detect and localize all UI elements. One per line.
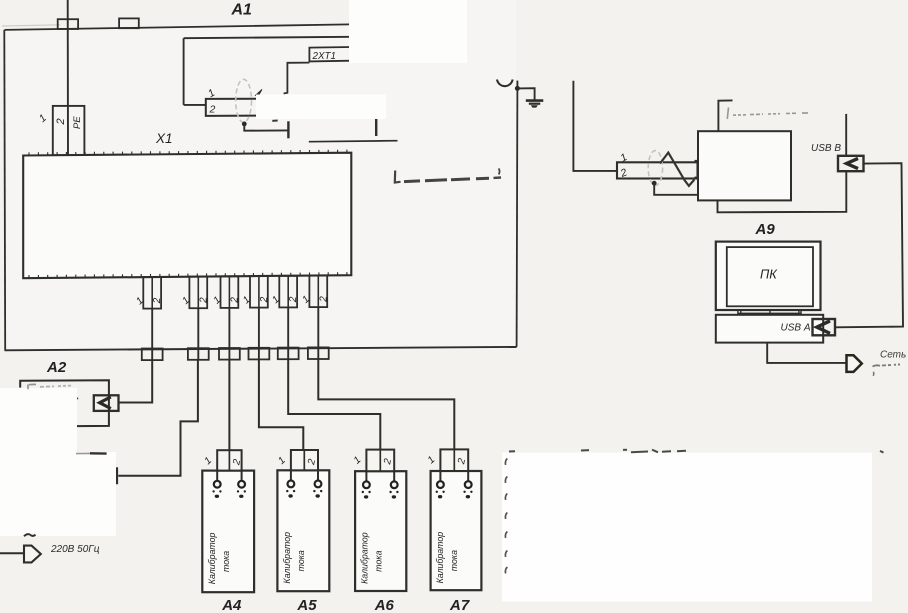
- erased remnant dash above wire: [272, 120, 277, 122]
- cable gland tab on A1 top edge (left): [58, 19, 78, 29]
- svg-text:А6: А6: [374, 597, 395, 613]
- connector USB A symbol: [813, 319, 836, 335]
- A1 interior lighter paper: [5, 0, 516, 350]
- twist wave line (right pair): [660, 153, 694, 186]
- label Калибратор тока inside А5: [282, 532, 306, 584]
- connector box 2XT1: [309, 47, 352, 61]
- erased A3 block edge remnant: [76, 452, 107, 455]
- erased label under Сеть remnants: [873, 364, 902, 375]
- erased label Генератор remnants: [28, 384, 73, 389]
- bulkhead feedthrough tab no.6 on A1 bottom edge: [308, 347, 329, 359]
- svg-text:Калибратор: Калибратор: [282, 532, 292, 584]
- svg-text:тока: тока: [296, 550, 306, 571]
- banana jack of А5 at x=318.0: [315, 481, 322, 488]
- label Калибратор тока inside А6: [360, 532, 384, 584]
- connector 1/2 on calibrator А7: [440, 449, 468, 471]
- bulkhead feedthrough tab no.5 on A1 bottom edge: [278, 348, 299, 360]
- svg-text:А9: А9: [755, 221, 776, 238]
- pin tick marks along X1 bottom edge: [29, 272, 347, 277]
- banana jack of А7 at x=468.2: [465, 481, 472, 488]
- wire from ground node to earth symbol: [517, 88, 534, 100]
- wire stub to jack at x=394.2 of А6: [393, 471, 395, 481]
- banana jack of А4 at x=217.2: [214, 481, 221, 488]
- block A1 enclosure bottom edge: [5, 347, 517, 350]
- wire from under-X1 connector no.5 down to bulkhead tab: [287, 307, 289, 348]
- current calibrator А4 box: [202, 471, 254, 593]
- svg-text:тока: тока: [221, 551, 231, 572]
- wire stub up from ground node: [516, 81, 518, 89]
- block A1 enclosure top edge: [5, 24, 350, 30]
- white-out patch top: [349, 0, 467, 63]
- svg-text:РЕ: РЕ: [72, 116, 83, 129]
- polarity dots of А7 at x=440.4: [436, 491, 445, 499]
- wire stub to jack at x=468.2 of А7: [467, 471, 469, 481]
- clamp circle at A1 corner: [497, 80, 513, 87]
- wire through bulkhead tab no.6: [317, 348, 319, 359]
- junction dot (right pair): [652, 181, 657, 186]
- white-out patch below A2: [0, 452, 116, 536]
- svg-text:А7: А7: [449, 597, 470, 613]
- inner wire loop top edge inside A1: [184, 37, 352, 38]
- connector 1/2 on calibrator А4: [217, 450, 241, 470]
- current calibrator А7 box: [431, 471, 482, 590]
- wire from image left edge to mains arrow: [0, 552, 24, 554]
- svg-text:тока: тока: [374, 550, 384, 571]
- wire USB B to right then down to USB A: [835, 163, 903, 327]
- label Калибратор тока inside А4: [207, 533, 231, 585]
- erased text mark r: [75, 398, 78, 402]
- wire from right pair junction dot to converter: [654, 183, 698, 195]
- white-out patch over legend: [502, 453, 872, 602]
- connector row 2 box (left twisted pair): [206, 99, 288, 116]
- svg-text:А5: А5: [296, 597, 317, 613]
- polarity dots of А5 at x=290.9: [286, 490, 295, 498]
- wire no.4 tab to calibrator A5: [259, 360, 303, 451]
- svg-text:А2: А2: [46, 359, 67, 376]
- svg-text:2: 2: [288, 296, 299, 303]
- terminal bar at erased A3 block: [116, 467, 118, 484]
- erased converter label text remnants: [727, 108, 808, 119]
- block A1 enclosure right edge: [516, 88, 519, 347]
- inner wire loop left edge: [183, 38, 185, 105]
- svg-text:Калибратор: Калибратор: [360, 532, 370, 584]
- erased legend line-start marks: [505, 459, 507, 574]
- svg-text:ПК: ПК: [760, 267, 778, 282]
- terminal block X1 outline: [23, 153, 351, 279]
- mains plug arrow (right): [847, 355, 862, 372]
- svg-text:2: 2: [198, 297, 209, 304]
- polarity dots of А7 at x=468.2: [463, 491, 472, 499]
- wire PC base to mains arrow: [767, 343, 845, 363]
- AC tilde mark: [24, 534, 36, 536]
- wire stub to jack at x=440.4 of А7: [439, 471, 441, 481]
- connector 1/2 pair no.6 under X1: [309, 276, 327, 308]
- svg-text:220В 50Гц: 220В 50Гц: [50, 544, 100, 555]
- wire stub to jack at x=241.6 of А4: [241, 471, 243, 481]
- polarity dots of А4 at x=241.6: [237, 490, 246, 498]
- connector 1/2 pair no.3 under X1: [221, 276, 239, 308]
- erased converter label box bracket: [718, 100, 732, 131]
- wire from junction dot to terminal bar: [244, 124, 287, 131]
- PC monitor inner box: [727, 247, 813, 306]
- junction dot at ground node: [515, 86, 520, 91]
- PC monitor stand shelf: [738, 310, 801, 313]
- svg-text:Сеть: Сеть: [880, 350, 906, 361]
- PC monitor outer box: [716, 242, 821, 310]
- twist arrowhead (left pair): [256, 89, 262, 95]
- wire no.1 tab to A2 plug: [119, 360, 153, 402]
- junction dot (left pair): [242, 122, 247, 127]
- svg-text:тока: тока: [449, 550, 459, 571]
- wire no.6 tab to calibrator A7: [318, 359, 454, 449]
- earth ground symbol: [526, 101, 544, 108]
- faint crease above A1 corner: [2, 25, 60, 26]
- bulkhead feedthrough tab no.1 on A1 bottom edge: [142, 349, 163, 361]
- bulkhead feedthrough tab no.4 on A1 bottom edge: [249, 348, 270, 360]
- wire stub to jack at x=217.2 of А4: [216, 471, 218, 481]
- connector 1/2 pair no.4 under X1: [250, 276, 268, 308]
- connector 1/2 pair no.5 under X1: [279, 276, 297, 308]
- bulkhead feedthrough tab no.3 on A1 bottom edge: [219, 348, 240, 360]
- label Калибратор тока inside А7: [435, 532, 459, 584]
- wire USB B up stub: [845, 114, 847, 156]
- svg-text:2: 2: [55, 118, 67, 125]
- svg-text:Калибратор: Калибратор: [435, 532, 445, 584]
- connector USB B symbol: [838, 156, 864, 171]
- svg-text:А1: А1: [231, 2, 253, 19]
- svg-text:А4: А4: [221, 597, 242, 613]
- wire through bulkhead tab no.5: [287, 348, 289, 359]
- banana jack of А7 at x=440.4: [437, 481, 444, 488]
- banana jack of А4 at x=241.6: [238, 481, 245, 488]
- erased label Блок БПОН 2-02 remnants: [395, 169, 501, 183]
- banana jack of А5 at x=290.9: [288, 481, 295, 488]
- mains plug arrow (left): [24, 546, 41, 563]
- cable gland tab on A1 top edge (right): [119, 18, 139, 28]
- polarity dots of А4 at x=217.2: [212, 490, 221, 498]
- white-out patch over left twisted pair: [256, 95, 386, 120]
- wire from under-X1 connector no.1 down to bulkhead tab: [151, 309, 153, 350]
- wire through bulkhead tab no.3: [228, 349, 230, 360]
- polarity dots of А6 at x=394.2: [389, 491, 398, 499]
- polarity dots of А5 at x=318.0: [313, 490, 322, 498]
- wire through bulkhead tab no.4: [258, 349, 260, 360]
- wire from under-X1 connector no.2 down to bulkhead tab: [197, 308, 199, 349]
- wire no.3 tab to calibrator A4: [228, 360, 230, 451]
- terminal bar left of erased block: [287, 121, 289, 138]
- pin tick marks along X1 top edge: [29, 150, 347, 155]
- svg-text:Калибратор: Калибратор: [207, 533, 217, 585]
- block A2 outline (partially erased): [20, 380, 109, 426]
- svg-text:USB В: USB В: [811, 143, 841, 154]
- twisted pair ellipse (left): [236, 79, 252, 122]
- svg-text:2: 2: [209, 104, 216, 116]
- wire from under-X1 connector no.3 down to bulkhead tab: [228, 308, 230, 349]
- interface converter block: [698, 131, 791, 200]
- svg-text:2ХТ1: 2ХТ1: [312, 51, 336, 62]
- connector 1/2 on calibrator А5: [291, 450, 318, 470]
- twisted pair ellipse (right): [648, 151, 662, 186]
- wire from A1 area down-right to converter pin 2: [573, 81, 617, 171]
- wire from 2XT1 box to pin 1 row: [284, 63, 310, 94]
- wire stub to jack at x=290.9 of А5: [290, 470, 292, 480]
- connector plug symbol on A2: [94, 395, 119, 411]
- block A1 enclosure left edge: [3, 30, 6, 350]
- connector 1/2 pair no.2 under X1: [189, 277, 207, 309]
- connector 1/2 pair no.1 under X1: [143, 277, 161, 309]
- white-out patch over A2 left part: [0, 388, 77, 452]
- wire mains input from image top into connector X1:PE block: [67, 0, 69, 155]
- bulkhead feedthrough tab no.2 on A1 bottom edge: [188, 348, 209, 360]
- wire through bulkhead tab no.2: [197, 349, 199, 360]
- wire through bulkhead tab no.1: [151, 349, 153, 360]
- banana jack of А6 at x=394.2: [391, 481, 398, 488]
- polarity dots of А6 at x=366.4: [362, 491, 371, 499]
- banana jack of А6 at x=366.4: [363, 481, 370, 488]
- svg-text:2: 2: [259, 296, 270, 303]
- wire no.5 tab to calibrator A6: [288, 359, 380, 449]
- svg-text:Х1: Х1: [155, 131, 173, 146]
- wire converter bottom to USB B: [718, 171, 847, 212]
- current calibrator А6 box: [355, 471, 406, 591]
- wire from under-X1 connector no.6 down to bulkhead tab: [317, 307, 319, 348]
- PC base unit box: [716, 315, 823, 343]
- erased block bottom wire remnant: [309, 141, 398, 142]
- wire no.2 tab to erased terminal: [118, 360, 198, 476]
- svg-text:2: 2: [152, 297, 163, 304]
- svg-text:USB А: USB А: [781, 323, 811, 334]
- erased legend first line remnants: [509, 450, 884, 453]
- svg-text:2: 2: [318, 296, 329, 303]
- terminal bar right of erased block: [375, 117, 377, 137]
- connector 1/2/PE box on X1: [53, 106, 85, 155]
- connector pin-2 row box (right twisted pair): [617, 162, 698, 178]
- pin stub marks at converter left edge: [695, 161, 699, 178]
- wire from under-X1 connector no.4 down to bulkhead tab: [258, 308, 260, 349]
- wire into pin 2 of connector 2XT1 mate: [184, 104, 206, 106]
- wire stub to jack at x=366.4 of А6: [365, 471, 367, 481]
- connector 1/2 on calibrator А6: [366, 450, 394, 472]
- svg-text:2: 2: [229, 297, 240, 304]
- current calibrator А5 box: [277, 470, 329, 591]
- wire stub to jack at x=318.0 of А5: [317, 470, 319, 480]
